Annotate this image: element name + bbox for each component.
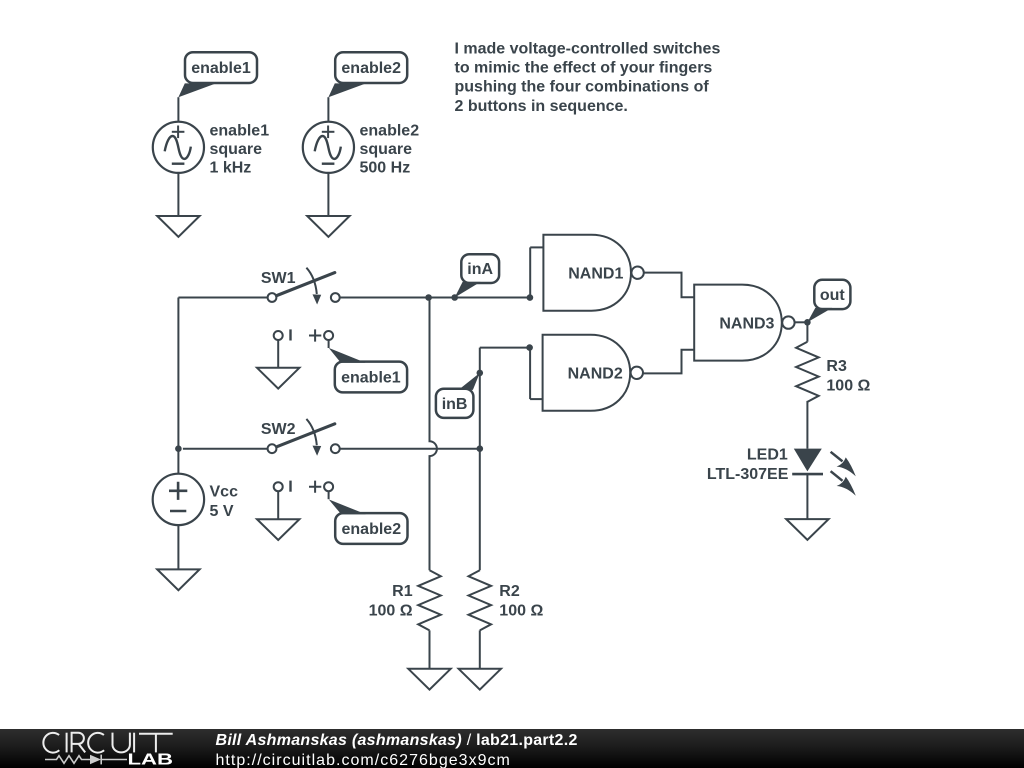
svg-text:inB: inB [442,396,468,413]
svg-text:R2: R2 [499,583,520,600]
svg-text:R3: R3 [826,358,847,375]
svg-text:enable2: enable2 [341,60,401,77]
svg-text:SW2: SW2 [261,421,296,438]
svg-text:square: square [210,141,263,158]
svg-text:Bill Ashmanskas (ashmanskas) /: Bill Ashmanskas (ashmanskas) / lab21.par… [216,732,578,749]
svg-text:NAND3: NAND3 [719,315,774,332]
svg-text:NAND2: NAND2 [568,365,623,382]
svg-text:NAND1: NAND1 [568,265,623,282]
svg-text:100 Ω: 100 Ω [369,603,413,620]
svg-text:pushing the four combinations: pushing the four combinations of [455,79,710,96]
svg-text:SW1: SW1 [261,270,296,287]
svg-text:inA: inA [467,261,493,278]
svg-text:R1: R1 [392,583,413,600]
svg-text:5 V: 5 V [210,503,234,520]
svg-text:Vcc: Vcc [210,484,239,501]
svg-text:http://circuitlab.com/c6276bge: http://circuitlab.com/c6276bge3x9cm [216,752,511,768]
svg-text:100 Ω: 100 Ω [499,603,543,620]
svg-text:2 buttons in sequence.: 2 buttons in sequence. [455,98,628,115]
svg-text:LTL-307EE: LTL-307EE [707,466,789,483]
svg-text:enable2: enable2 [360,123,420,140]
svg-text:enable1: enable1 [341,370,401,387]
svg-text:enable2: enable2 [342,521,402,538]
svg-text:LAB: LAB [128,752,174,768]
svg-text:enable1: enable1 [191,60,251,77]
svg-text:100 Ω: 100 Ω [826,378,870,395]
svg-text:LED1: LED1 [747,447,788,464]
svg-text:500 Hz: 500 Hz [360,160,411,177]
svg-text:1 kHz: 1 kHz [210,160,252,177]
svg-text:enable1: enable1 [210,123,270,140]
svg-text:square: square [360,141,413,158]
svg-text:out: out [820,287,846,304]
svg-text:I made voltage-controlled swit: I made voltage-controlled switches [455,40,721,57]
svg-text:to mimic the effect of your fi: to mimic the effect of your fingers [455,60,713,77]
